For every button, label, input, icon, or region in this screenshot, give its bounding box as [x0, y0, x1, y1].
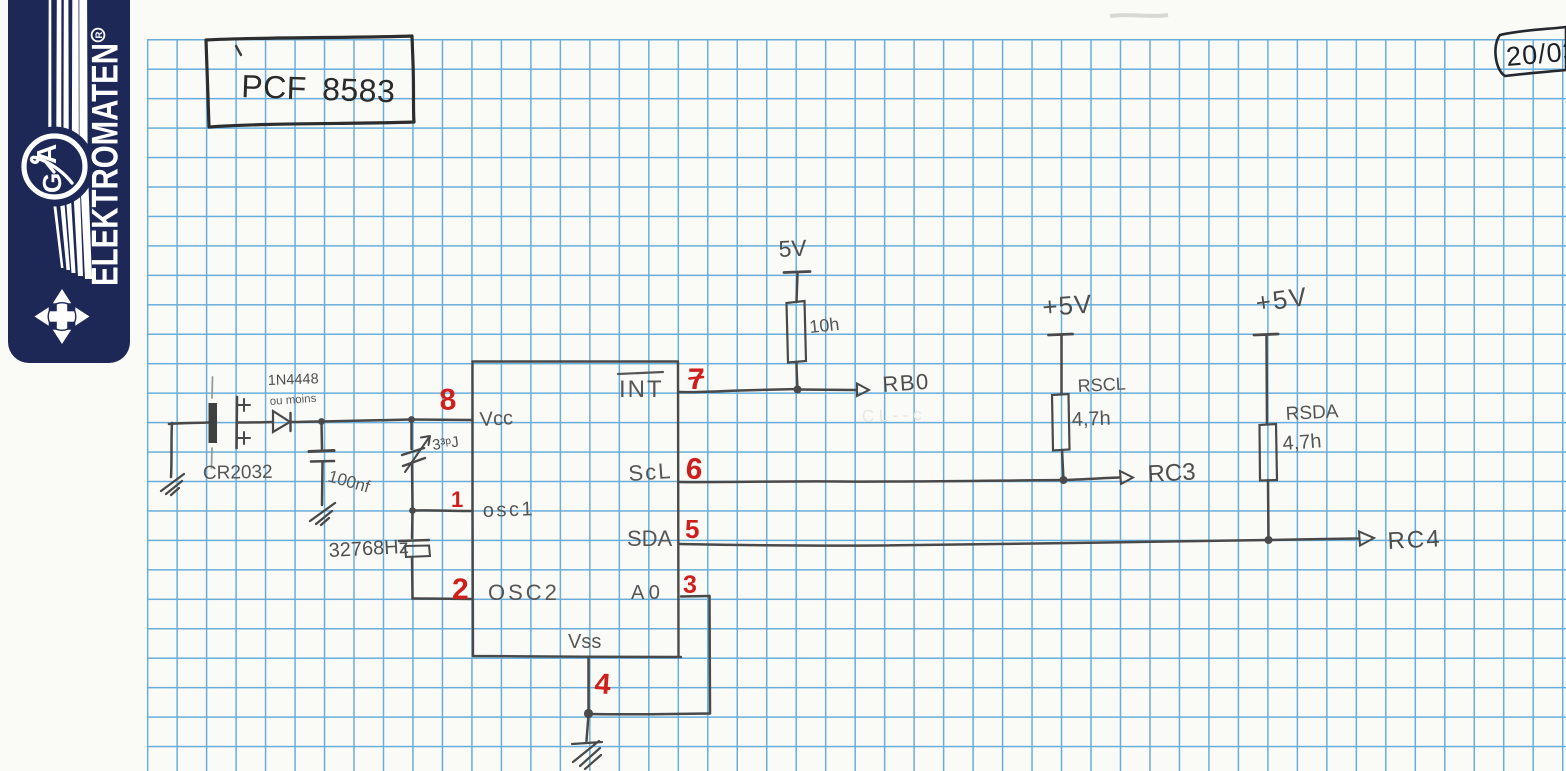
wire trimmer to node C [411, 462, 414, 511]
arrow RC4 [1359, 532, 1374, 546]
wire resistor R3 top lead [1265, 336, 1268, 424]
node C junction [409, 507, 416, 514]
pencil smudge top [1110, 15, 1168, 16]
wire node E to RC3 arrow [1064, 478, 1120, 481]
ground main [572, 741, 602, 769]
svg-text:5V: 5V [778, 235, 808, 262]
power rail +5V R2 [1049, 334, 1073, 335]
svg-text:ScL: ScL [628, 458, 674, 486]
wire resistor R1 bottom lead [797, 362, 798, 390]
label INT with overline [618, 372, 664, 403]
date frame [1495, 27, 1566, 76]
wire SCL pin6 to node E [679, 480, 1064, 482]
svg-text:RSCL: RSCL [1077, 374, 1126, 396]
node D junction [794, 386, 802, 394]
node G junction [584, 709, 593, 718]
trimmer capacitor CT [402, 436, 430, 472]
wire ground riser [171, 423, 172, 477]
wire resistor R1 top lead [797, 274, 798, 301]
wire crystal to OSC2 corner [411, 557, 414, 599]
battery plus marks [238, 399, 250, 444]
svg-text:PCF 8583: PCF 8583 [241, 68, 396, 109]
registered trademark [92, 29, 105, 42]
wire resistor R2 bottom lead [1062, 450, 1064, 480]
wire node B down to trimmer [410, 420, 413, 450]
power rail +5V R3 [1254, 334, 1278, 335]
wire A0 corner down [708, 596, 711, 714]
wire SDA pin5 to node F [679, 540, 1269, 546]
wire node C down to crystal [411, 511, 414, 539]
node A junction [318, 418, 325, 425]
wire INT pin7 to node D [679, 389, 798, 392]
wire corner to pin 2 OSC2 [413, 597, 473, 600]
wire capacitor to ground [321, 462, 324, 505]
wire node A down to capacitor [320, 422, 323, 451]
resistor R2 RSCL 4.7k [1052, 394, 1070, 451]
svg-text:INT: INT [619, 376, 664, 403]
IC U1 PCF8583 outline [472, 361, 681, 657]
node F junction [1265, 536, 1273, 544]
svg-text:32768Hz: 32768Hz [328, 536, 409, 562]
svg-text:ELEKTROMATEN: ELEKTROMATEN [85, 43, 126, 286]
svg-text:A 0: A 0 [631, 582, 660, 604]
svg-text:4,7h: 4,7h [1282, 430, 1322, 455]
arrow RC3 [1120, 471, 1133, 484]
GfA circle logo [15, 127, 95, 207]
speed stripes [48, 0, 92, 279]
svg-text:8: 8 [439, 383, 457, 417]
wire node C to pin 1 OSC1 [413, 509, 473, 512]
banner background [8, 0, 130, 363]
arrow RB0 [857, 384, 869, 397]
pen tick [236, 46, 241, 55]
svg-text:20/03: 20/03 [1505, 36, 1566, 72]
svg-text:CR2032: CR2032 [203, 462, 273, 484]
svg-text:4: 4 [594, 668, 612, 701]
ground battery [161, 474, 184, 495]
svg-text:C L - - c: C L - - c [861, 405, 922, 426]
svg-text:3: 3 [683, 571, 697, 599]
svg-text:2: 2 [452, 573, 469, 606]
svg-text:10h: 10h [808, 314, 840, 337]
wire node G to ground [587, 714, 589, 742]
svg-text:+5V: +5V [1041, 289, 1093, 322]
title frame [206, 36, 414, 127]
wire battery to diode [237, 421, 272, 424]
svg-text:OSC2: OSC2 [488, 580, 560, 605]
ground capacitor [310, 503, 335, 525]
wire resistor R3 bottom lead [1267, 480, 1270, 540]
svg-text:4,7h: 4,7h [1071, 408, 1111, 431]
svg-text:RC3: RC3 [1147, 459, 1196, 488]
node E junction [1060, 476, 1068, 484]
svg-text:SDA: SDA [627, 526, 673, 551]
svg-text:osc1: osc1 [482, 498, 535, 522]
wire battery left to ground riser [169, 423, 208, 425]
wire Vss pin4 down [587, 657, 590, 714]
diode D1 1N4448 [273, 411, 291, 432]
resistor R3 RSDA 4.7k [1260, 424, 1278, 481]
wire A0 bottom to node G [589, 712, 710, 715]
wire resistor R2 top lead [1060, 336, 1063, 394]
capacitor C1 100nF [309, 451, 334, 462]
svg-text:RSDA: RSDA [1285, 401, 1339, 425]
battery CR2032 [209, 377, 238, 468]
resistor R1 10k [787, 301, 807, 363]
wire node A to node B [322, 420, 412, 422]
node B junction [408, 416, 415, 423]
wire node D to RB0 arrow [798, 388, 857, 391]
power rail 5V R1 [784, 272, 810, 273]
svg-text:G: G [37, 173, 67, 193]
wire A0 pin3 to corner [681, 595, 710, 598]
arrows cross symbol [35, 289, 90, 344]
svg-text:1: 1 [451, 487, 463, 512]
svg-text:RC4: RC4 [1387, 525, 1442, 555]
svg-text:Vss: Vss [568, 631, 601, 653]
wire node F to RC4 arrow [1269, 539, 1359, 541]
crystal X1 32768Hz [399, 540, 430, 557]
wire node B to pin 8 Vcc [412, 418, 473, 421]
svg-text:R: R [94, 31, 105, 38]
svg-text:1N4448: 1N4448 [268, 371, 319, 389]
svg-text:Vcc: Vcc [479, 407, 513, 431]
wire diode to node A [291, 420, 321, 423]
svg-text:5: 5 [685, 514, 699, 544]
svg-text:RB0: RB0 [882, 369, 931, 397]
